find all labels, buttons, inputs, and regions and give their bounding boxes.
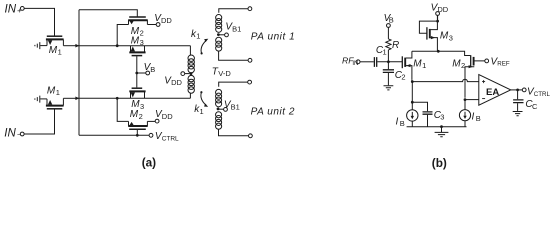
node junction dot [116, 44, 119, 47]
node RFin terminal [356, 60, 360, 64]
svg-text:2: 2 [140, 29, 144, 38]
wire M2 bottom gate to VCTRL line [136, 130, 138, 136]
wire M2 bottom source from rail [117, 98, 128, 121]
svg-text:DD: DD [161, 16, 172, 25]
svg-text:M: M [131, 35, 140, 46]
svg-text:3: 3 [140, 38, 144, 47]
svg-text:IN: IN [352, 61, 358, 67]
svg-text:M: M [452, 58, 461, 69]
capacitor C3 [423, 112, 433, 114]
node junction dot VB1 tap (top) [217, 33, 220, 36]
wire node to C2 [387, 62, 389, 69]
svg-text:DD: DD [162, 112, 173, 121]
wire bus to VCTRL terminal [79, 134, 149, 136]
wire M1 top source to ground [40, 45, 47, 47]
transistor M3 (bottom) [129, 88, 145, 98]
node junction arrow at bus bottom rail [75, 97, 79, 101]
capacitor C2 [383, 70, 394, 73]
wire primary bottom to rail [189, 93, 191, 98]
wire M1 source node to EA+ with hop [412, 79, 479, 81]
node junction dot M2 bottom source at rail [116, 97, 119, 100]
inductor primary coil lower half [188, 75, 194, 93]
wire M3 gates bias line [136, 56, 138, 87]
wire VB1 tap to terminal (top) [218, 34, 224, 36]
transistor M2 (bottom) [128, 121, 148, 129]
svg-text:3: 3 [449, 33, 453, 42]
node VDD terminal (bottom) [155, 119, 159, 123]
transistor M1 (bottom) [46, 98, 64, 108]
wire rail into transformer primary top [189, 46, 191, 55]
wire M2 top drain to VDD [147, 24, 156, 26]
wire EA output [511, 89, 523, 91]
svg-text:PA unit 1: PA unit 1 [251, 31, 295, 42]
node junction dot center tap [190, 72, 193, 75]
wire EA output to Cc [517, 90, 519, 99]
wire VB to R [387, 27, 389, 39]
ground (rotated, M1 top source) [35, 42, 40, 49]
svg-text:2: 2 [401, 73, 405, 82]
node junction dot M3 drain [437, 50, 440, 53]
svg-text:IN: IN [4, 128, 16, 140]
current source Ib (left) [407, 110, 418, 121]
node VDD terminal (b) [436, 12, 440, 16]
svg-text:DD: DD [171, 78, 182, 87]
wire VB1 tap to terminal (bottom) [218, 108, 224, 110]
svg-text:I: I [472, 111, 475, 122]
node junction dot EA output [516, 89, 519, 92]
transistor M2 (top) [128, 17, 148, 25]
svg-text:M: M [440, 31, 449, 42]
inductor secondary 2 upper half [216, 89, 222, 107]
svg-text:EA: EA [486, 87, 499, 98]
svg-text:3: 3 [440, 113, 444, 122]
node junction dot VB tap [135, 72, 138, 75]
wire M2 source to current source [464, 100, 466, 110]
node VB1 terminal (bottom) [224, 108, 228, 112]
svg-text:1: 1 [196, 32, 200, 41]
wire M1 bottom drain to bus [63, 97, 79, 99]
inductor secondary 1 lower half [216, 37, 222, 51]
wire EA- input [465, 99, 479, 101]
svg-text:−: − [17, 130, 22, 139]
svg-text:1: 1 [383, 48, 387, 57]
capacitor Cc [513, 100, 523, 103]
svg-text:2: 2 [461, 61, 465, 70]
node junction dot EA- tap [464, 98, 467, 101]
wire coupling arc k1 (bottom) [200, 91, 208, 107]
inductor primary coil upper half [188, 55, 194, 73]
wire M1 top drain to bus [63, 45, 79, 47]
svg-text:3: 3 [140, 102, 144, 111]
svg-text:1: 1 [58, 48, 62, 57]
svg-text:M: M [413, 58, 422, 69]
svg-text:DD: DD [437, 5, 448, 14]
wire M1 bottom source to ground [40, 98, 47, 100]
wire C2 to ground [387, 73, 389, 85]
node junction dot C3 tap [411, 101, 414, 104]
svg-text:1: 1 [56, 88, 60, 97]
node IN+ terminal [20, 6, 24, 10]
node junction arrow at bus top rail [75, 44, 79, 48]
svg-text:M: M [49, 45, 58, 56]
wire PA unit 2 bottom terminal lead [219, 129, 249, 136]
wire C3 to rail [427, 115, 429, 127]
wire RFin to C1 [360, 61, 374, 63]
transistor M1 (b) [402, 51, 412, 80]
svg-text:CTRL: CTRL [162, 136, 179, 143]
label EA plus [482, 80, 485, 83]
wire C1 to M1 gate [377, 61, 402, 63]
inductor secondary 2 lower half [216, 112, 222, 130]
wire M1 drain bus to M2 gate [412, 51, 471, 55]
wire VDD down [437, 15, 439, 21]
wire R to input node [387, 50, 389, 62]
svg-text:C: C [532, 102, 538, 111]
wire M2 bottom drain to VDD [147, 120, 155, 122]
svg-text:I: I [396, 116, 399, 127]
svg-text:2: 2 [139, 112, 143, 121]
wire bottom rail [79, 97, 190, 99]
op-amp EA triangle [479, 75, 511, 106]
svg-text:M: M [130, 109, 139, 120]
node junction dot M1 source [411, 80, 414, 83]
node junction dot rail ground [440, 125, 443, 128]
node VREF terminal [485, 59, 489, 63]
svg-text:1: 1 [200, 107, 204, 116]
svg-text:PA unit 2: PA unit 2 [251, 106, 295, 117]
node PA unit 1 top terminal [248, 7, 252, 11]
svg-text:B1: B1 [231, 103, 240, 112]
wire vertical bus [78, 10, 80, 136]
label EA minus [482, 98, 485, 100]
node junction dot input node [387, 60, 390, 63]
transistor M3 (top) [129, 46, 145, 56]
svg-text:B: B [389, 16, 394, 25]
svg-text:(b): (b) [432, 156, 447, 170]
svg-text:(a): (a) [142, 156, 156, 170]
wire Cc to ground [517, 103, 519, 111]
node IN- terminal [20, 132, 24, 136]
svg-text:V-D: V-D [218, 69, 231, 78]
node PA unit 1 bottom terminal [248, 58, 252, 62]
svg-text:1: 1 [422, 61, 426, 70]
svg-text:CTRL: CTRL [534, 91, 550, 98]
node VDD terminal (top) [156, 23, 160, 27]
node VCTRL terminal [149, 133, 153, 137]
svg-text:B1: B1 [232, 24, 241, 33]
capacitor C1 [374, 57, 376, 67]
node PA unit 2 top terminal [248, 80, 252, 84]
wire Ib right to rail [464, 121, 466, 127]
svg-text:B: B [476, 114, 481, 123]
svg-text:B: B [150, 65, 155, 74]
wire M1 source down to current source [411, 82, 413, 110]
ground (below Cc) [513, 112, 523, 116]
wire IN- to M1 bottom gate [24, 109, 54, 134]
node junction dot gate tap [136, 134, 139, 137]
node VB1 terminal (top) [225, 33, 229, 37]
resistor R [386, 39, 391, 50]
wire center tap to VDD terminal [185, 73, 190, 75]
wire coupling arc k1 (top) [201, 39, 209, 55]
transistor M1 (top) [46, 36, 64, 45]
svg-text:B: B [400, 119, 405, 128]
wire PA unit 2 top terminal lead [219, 82, 248, 87]
current source Ib (right) [459, 110, 470, 121]
node PA unit 2 bottom terminal [249, 134, 253, 138]
wire VB tap to terminal [137, 72, 146, 74]
node VB terminal (b) [387, 24, 391, 28]
wire M2 top source down to rail [117, 25, 128, 46]
wire PA unit 1 bottom terminal lead [219, 51, 249, 60]
wire PA unit 1 top terminal lead [219, 9, 248, 13]
node VCTRL terminal (b) [522, 88, 526, 92]
node VB terminal [146, 71, 150, 75]
wire IN+ to M1 top gate [24, 8, 54, 36]
wire ground rail (b) [407, 126, 467, 128]
node VDD center-tap terminal [181, 72, 185, 76]
ground (rail) [435, 127, 449, 137]
wire M3 gate loop [419, 21, 437, 33]
transistor M3 (b) PMOS [427, 15, 438, 51]
node junction dot VB1 tap (bottom) [217, 108, 220, 111]
svg-text:+: + [17, 6, 22, 15]
transistor M2 (b) [465, 55, 485, 97]
wire Ib left to rail [411, 121, 413, 127]
ground (below C2) [384, 86, 394, 90]
ground (rotated, M1 bottom source) [35, 96, 40, 103]
inductor secondary 1 upper half [216, 15, 222, 33]
svg-text:M: M [47, 85, 56, 96]
wire to C3 [412, 102, 427, 111]
wire top rail [79, 45, 190, 47]
svg-text:REF: REF [497, 61, 510, 68]
svg-text:R: R [392, 40, 399, 51]
wire bus to M2 top gate [79, 10, 137, 17]
svg-text:IN: IN [5, 3, 17, 15]
node junction dot M3 source/VDD [436, 20, 439, 23]
